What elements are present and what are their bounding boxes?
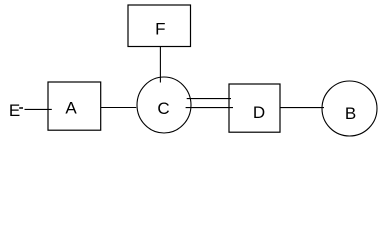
wire C to D upper [187, 98, 231, 100]
wire C to D lower [186, 107, 233, 109]
wire E to A [25, 108, 52, 110]
node E superscript minus [19, 107, 23, 109]
svg-text:B: B [345, 104, 356, 123]
circle C [137, 77, 191, 133]
svg-text:D: D [253, 103, 265, 122]
block D [229, 84, 280, 132]
wire A to C [101, 107, 137, 109]
wire F to C [159, 47, 161, 83]
svg-text:E: E [9, 101, 20, 120]
circle B [322, 81, 377, 136]
svg-text:C: C [157, 99, 169, 118]
svg-text:F: F [155, 20, 165, 39]
block A [48, 82, 101, 130]
block F [128, 5, 191, 47]
svg-text:A: A [65, 99, 77, 118]
wire D to B [280, 107, 324, 109]
